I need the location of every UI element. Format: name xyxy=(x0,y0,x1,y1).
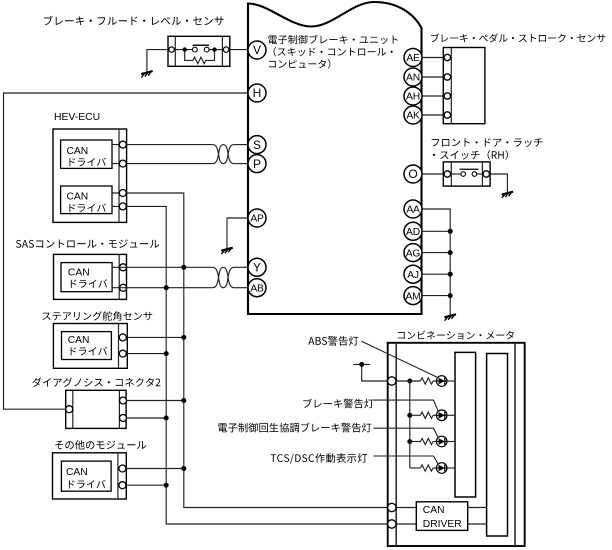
svg-text:AB: AB xyxy=(250,283,264,294)
junction lamp bus 2 xyxy=(407,413,412,418)
switch S2 bar xyxy=(460,168,479,170)
label combination meter xyxy=(398,331,514,340)
LED D2 brake warning lamp xyxy=(436,410,447,421)
junction power stub xyxy=(359,362,364,367)
terminal Y xyxy=(248,258,266,276)
resistor R4 regen brake lamp xyxy=(421,438,434,444)
svg-text:Y: Y xyxy=(253,261,261,275)
svg-text:HEV-ECU: HEV-ECU xyxy=(54,112,100,123)
terminal AJ xyxy=(404,265,422,283)
terminal V xyxy=(248,41,266,59)
svg-text:AJ: AJ xyxy=(407,270,419,281)
switch S2 door latch box xyxy=(443,162,490,186)
terminal AM xyxy=(404,287,422,305)
svg-text:CAN: CAN xyxy=(68,335,90,346)
steering terminal pins xyxy=(119,334,126,341)
fluid sensor inner wires xyxy=(174,49,192,51)
wire power stub xyxy=(353,363,370,365)
junction bus A / steering xyxy=(164,351,169,356)
svg-text:DRIVER: DRIVER xyxy=(423,519,462,530)
terminal H xyxy=(248,84,266,102)
wire lamp branch regen brake xyxy=(410,441,421,443)
svg-text:AA: AA xyxy=(406,205,420,216)
switch S1 brake fluid level sensor box xyxy=(168,36,230,66)
wire SAS to Y xyxy=(112,266,213,268)
wire H to diagnosis connector xyxy=(4,93,249,409)
LED D1 ABS warning lamp xyxy=(436,376,447,387)
wire lamp branch ABS xyxy=(396,380,421,382)
wire O to switch xyxy=(422,173,445,175)
junction bus A / diagnosis xyxy=(164,416,169,421)
wire resistor to LED xyxy=(433,441,436,443)
terminal AN xyxy=(404,68,422,86)
SAS terminal pins xyxy=(120,264,127,271)
leader line ABS lamp xyxy=(362,341,439,377)
label diagnosis connector 2 xyxy=(32,377,160,386)
fluid sensor contact dots xyxy=(183,47,187,51)
junction bus A / other xyxy=(164,483,169,488)
twisted pair Y/AB xyxy=(213,267,234,287)
resistor R5 TCS/DSC lamp xyxy=(421,465,434,471)
wire AP to ground xyxy=(227,218,248,249)
svg-text:P: P xyxy=(253,157,261,171)
module SAS box xyxy=(54,254,127,299)
svg-text:H: H xyxy=(253,86,262,100)
diagnosis left pin xyxy=(66,406,73,413)
leader line brake lamp xyxy=(373,400,438,411)
wire HEV1 to S xyxy=(112,144,213,146)
wire twist to AB xyxy=(234,287,248,289)
LED D4 TCS/DSC warning lamp xyxy=(436,463,447,474)
svg-text:AH: AH xyxy=(406,92,420,103)
wire steering to bus A xyxy=(126,353,166,355)
wire AJ to bus xyxy=(422,273,450,275)
sensor stroke box xyxy=(443,48,485,124)
svg-text:AG: AG xyxy=(406,248,421,259)
wire resistor to LED xyxy=(433,467,436,469)
fluid sensor pins xyxy=(169,47,174,52)
label unit line1 xyxy=(268,35,398,44)
terminal S xyxy=(248,136,266,154)
wire LED to panel xyxy=(447,441,455,443)
label brake fluid level sensor xyxy=(44,16,224,26)
meter inner rect 2 xyxy=(487,354,508,537)
ground G1 fluid sensor xyxy=(141,71,153,77)
SAS CAN text jp xyxy=(71,279,108,288)
HEV CAN driver 1 text jp xyxy=(69,158,106,167)
junction bus A / AB wire xyxy=(164,285,169,290)
resistor R3 brake lamp xyxy=(421,412,434,418)
wire AD to bus xyxy=(422,230,450,232)
svg-text:AE: AE xyxy=(406,53,420,64)
junction AD xyxy=(448,229,453,234)
meter CAN DRIVER box xyxy=(416,502,467,531)
label brake warning lamp xyxy=(303,399,373,409)
wire fluid sensor to terminal V xyxy=(230,49,248,51)
junction AG xyxy=(448,250,453,255)
other CAN driver box xyxy=(61,461,111,491)
wire lamp bus xyxy=(409,381,411,468)
other terminal pins xyxy=(119,465,126,472)
junction bus B / other xyxy=(181,466,186,471)
wire AA bus xyxy=(422,209,450,315)
svg-text:CAN: CAN xyxy=(67,192,89,203)
meter pin top xyxy=(388,377,396,385)
label front door latch line2 xyxy=(433,150,508,160)
terminal O xyxy=(404,165,422,183)
other CAN text jp xyxy=(69,480,106,489)
HEV terminal pins xyxy=(119,141,126,148)
wire LED to panel xyxy=(447,467,455,469)
fluid sensor contact gaps xyxy=(193,47,198,52)
switch S2 pins xyxy=(444,171,450,177)
terminal AD xyxy=(404,222,422,240)
label unit line3 xyxy=(269,59,330,69)
svg-text:CAN: CAN xyxy=(423,505,445,516)
wire CAN-L bus A from HEV2 xyxy=(112,206,388,524)
svg-text:O: O xyxy=(408,167,417,181)
wire other to bus A xyxy=(126,484,166,486)
wire lamp branch brake xyxy=(410,414,421,416)
meter pin CAN-H xyxy=(388,503,396,511)
svg-text:S: S xyxy=(253,138,261,152)
HEV CAN driver 2 text jp xyxy=(69,204,106,213)
wire twist to P xyxy=(234,163,248,165)
wire steering to bus B xyxy=(126,336,183,338)
label front door latch line1 xyxy=(432,138,543,147)
svg-text:AD: AD xyxy=(406,227,420,238)
label brake pedal stroke sensor xyxy=(431,33,605,42)
label other module xyxy=(55,440,146,449)
ground G2 AP xyxy=(221,248,233,254)
wire AH to sensor xyxy=(422,95,445,97)
SAS CAN driver box xyxy=(61,263,112,292)
terminal AG xyxy=(404,244,422,262)
label unit line2 xyxy=(274,47,393,57)
steering CAN driver box xyxy=(62,332,112,360)
wire AN to sensor xyxy=(422,76,445,78)
label regen brake warning lamp xyxy=(218,423,371,433)
wire fluid sensor to ground xyxy=(147,50,168,72)
terminal P xyxy=(248,155,266,173)
fluid sensor resistor R1 parallel path xyxy=(185,50,215,64)
svg-text:AN: AN xyxy=(406,73,420,84)
leader line regen lamp xyxy=(373,428,438,437)
svg-text:CAN: CAN xyxy=(67,146,89,157)
junction bus B / Y wire xyxy=(181,265,186,270)
svg-text:CAN: CAN xyxy=(68,267,90,278)
stroke sensor pins xyxy=(444,54,450,60)
LED D3 regen brake warning lamp xyxy=(436,436,447,447)
wire diagnosis to bus A xyxy=(126,417,166,419)
svg-text:CAN: CAN xyxy=(66,467,88,478)
junction AJ xyxy=(448,272,453,277)
svg-text:AP: AP xyxy=(250,214,264,225)
junction lamp bus 3 xyxy=(407,439,412,444)
meter CAN DRIVER wires xyxy=(396,507,417,509)
wire LED to panel xyxy=(447,414,455,416)
svg-text:AM: AM xyxy=(405,291,420,302)
module other box xyxy=(53,453,127,499)
junction AM xyxy=(448,293,453,298)
HEV CAN driver 1 box xyxy=(61,140,112,168)
junction bus B / steering xyxy=(181,335,186,340)
wire SAS to AB xyxy=(112,287,213,289)
meter pin CAN-L xyxy=(388,520,396,528)
module HEV-ECU box xyxy=(53,129,127,222)
terminal AA xyxy=(404,200,422,218)
label steering angle sensor xyxy=(42,311,152,320)
meter inner rect 1 xyxy=(455,352,476,497)
wire CAN-H bus B from HEV2 xyxy=(112,193,388,508)
terminal AB xyxy=(248,279,266,297)
wire resistor to LED xyxy=(433,414,436,416)
terminal AK xyxy=(404,106,422,124)
wire AM to bus xyxy=(422,295,450,297)
wire other to bus B xyxy=(126,468,184,470)
label TCS/DSC indicator lamp xyxy=(271,453,368,463)
switch S2 contacts xyxy=(461,172,466,177)
leader line TCS lamp xyxy=(373,456,438,464)
HEV CAN driver 2 box xyxy=(61,186,112,214)
wire twist to S xyxy=(234,144,248,146)
wire AG to bus xyxy=(422,252,450,254)
ground G3 door latch xyxy=(502,192,514,198)
label SAS control module xyxy=(16,239,159,248)
switch S2 inner wires xyxy=(451,173,462,175)
steering CAN text jp xyxy=(71,347,108,356)
wire AK to sensor xyxy=(422,114,445,116)
terminal AE xyxy=(404,49,422,67)
meter box xyxy=(388,343,525,546)
wire switch to ground xyxy=(488,174,507,193)
resistor R2 ABS lamp xyxy=(421,378,434,384)
terminal AH xyxy=(404,87,422,105)
wire HEV1 to P xyxy=(112,163,213,165)
wire diagnosis to bus B xyxy=(126,400,184,402)
wire lamp branch TCS/DSC xyxy=(410,467,421,469)
junction bus B / diagnosis xyxy=(181,398,186,403)
label ABS warning lamp xyxy=(308,336,358,346)
wire AE to sensor xyxy=(422,57,445,59)
wire resistor to LED xyxy=(433,380,436,382)
fluid sensor switch bar xyxy=(193,44,210,46)
wire LED to panel xyxy=(447,380,455,382)
svg-text:AK: AK xyxy=(406,111,420,122)
module steering sensor box xyxy=(53,324,127,369)
junction lamp bus top xyxy=(407,379,412,384)
ECU electronic brake control unit U1 outline xyxy=(248,2,422,314)
twisted pair S/P xyxy=(213,145,234,164)
ground G4 AA bus xyxy=(444,314,456,320)
svg-text:V: V xyxy=(253,43,261,57)
diagnosis right pins xyxy=(120,397,127,404)
terminal AP xyxy=(248,209,266,227)
wire twist to Y xyxy=(234,266,248,268)
connector diagnosis box xyxy=(66,390,126,428)
